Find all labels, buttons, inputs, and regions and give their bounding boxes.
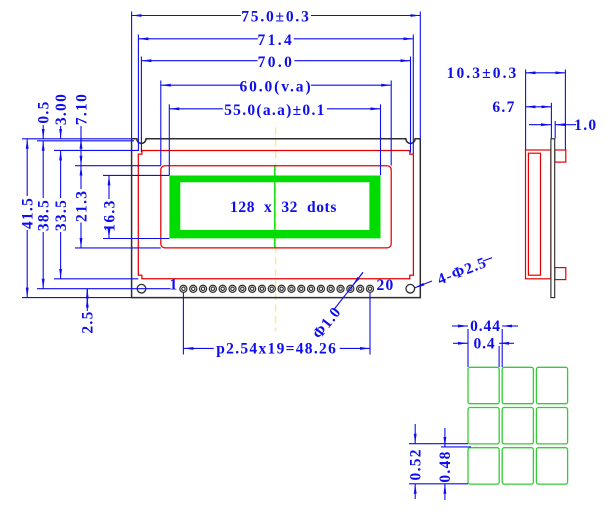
svg-text:75.0±0.3: 75.0±0.3 [241,9,310,26]
svg-text:0.4: 0.4 [473,335,495,352]
svg-text:20: 20 [376,277,394,294]
svg-text:1: 1 [169,277,178,294]
svg-text:1.0: 1.0 [574,117,597,134]
svg-text:10.3±0.3: 10.3±0.3 [447,65,519,82]
svg-text:p2.54x19=48.26: p2.54x19=48.26 [216,341,337,358]
svg-text:21.3: 21.3 [73,190,90,222]
svg-text:41.5: 41.5 [20,197,37,229]
svg-text:60.0(v.a): 60.0(v.a) [239,78,312,95]
svg-text:0.5: 0.5 [36,100,53,123]
svg-text:33.5: 33.5 [53,199,70,231]
svg-text:70.0: 70.0 [258,54,295,71]
svg-text:2.5: 2.5 [80,310,97,333]
svg-text:0.44: 0.44 [470,318,501,335]
svg-text:16.3: 16.3 [101,199,118,231]
svg-text:0.48: 0.48 [437,450,454,482]
svg-text:71.4: 71.4 [257,32,294,49]
svg-text:38.5: 38.5 [36,199,53,231]
svg-text:6.7: 6.7 [492,99,515,116]
svg-text:128 x 32 dots: 128 x 32 dots [230,199,337,216]
svg-text:3.00: 3.00 [53,93,70,125]
svg-text:55.0(a.a)±0.1: 55.0(a.a)±0.1 [224,102,326,119]
svg-text:0.52: 0.52 [408,448,425,480]
svg-text:7.10: 7.10 [73,93,90,125]
